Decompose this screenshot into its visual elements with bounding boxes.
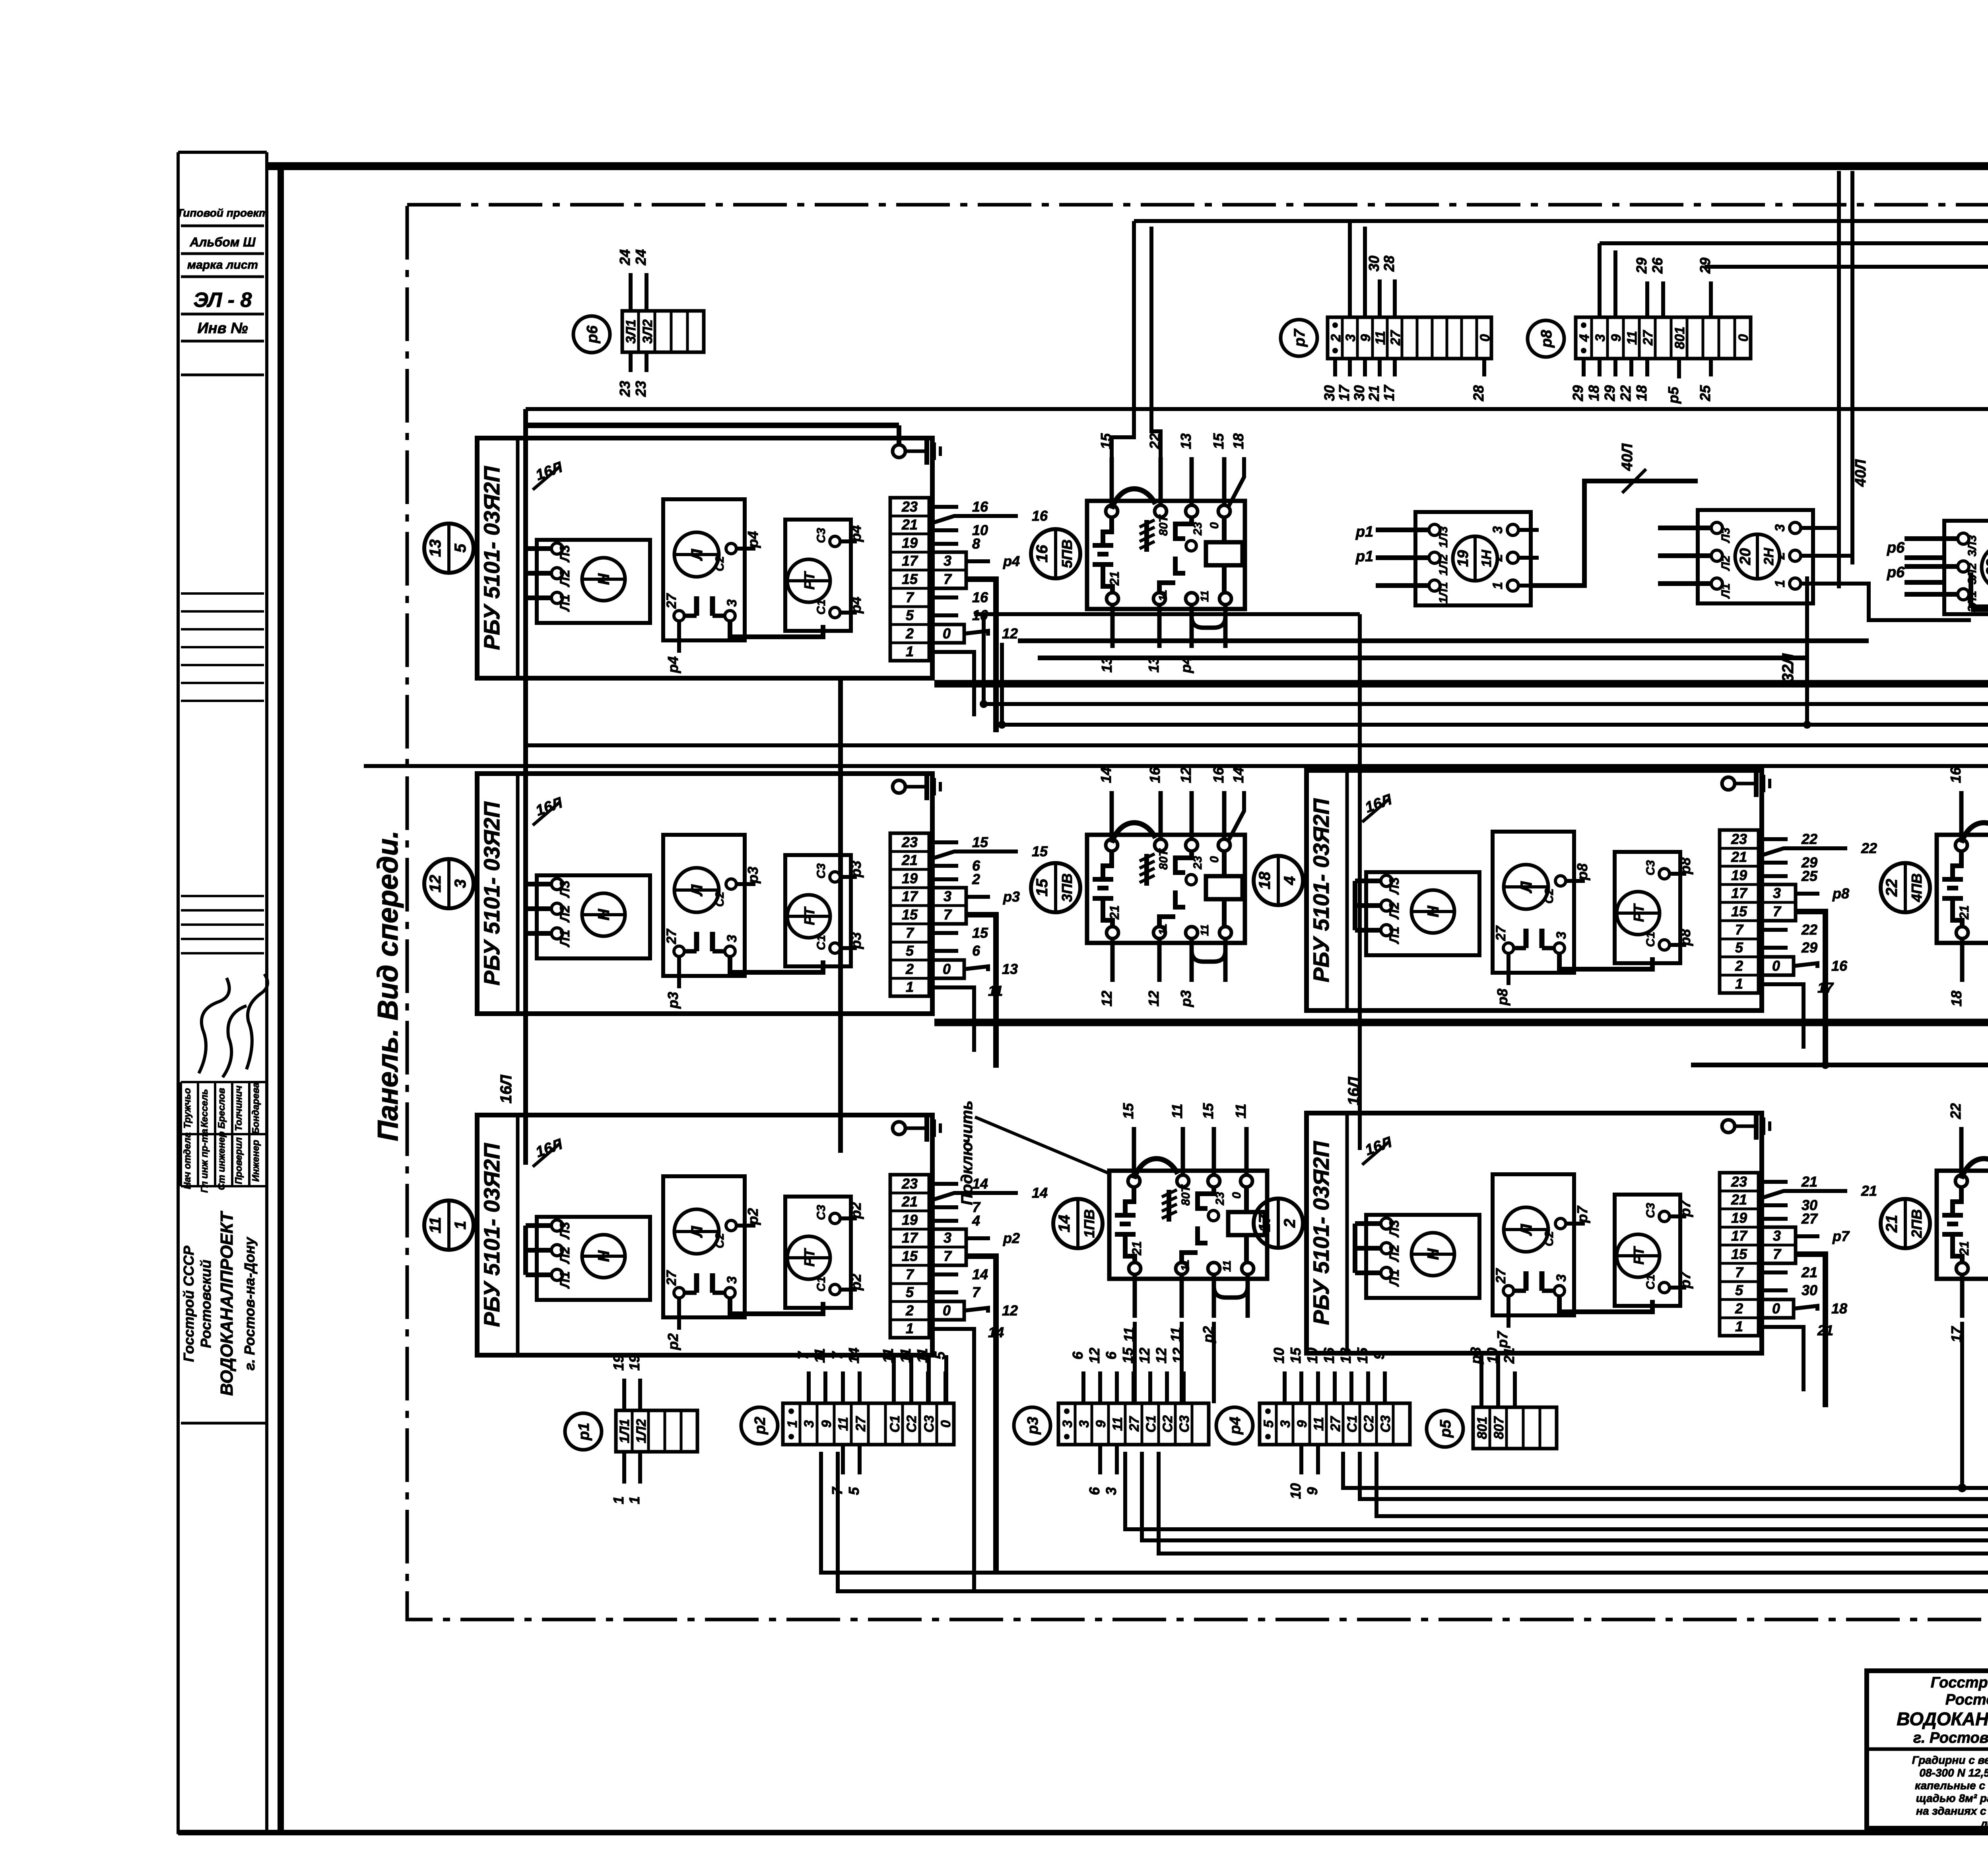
svg-text:р4: р4 [848, 525, 864, 542]
svg-text:РТ: РТ [801, 906, 817, 925]
wire to 1-3 [1125, 1452, 1988, 1529]
svg-text:р8: р8 [1677, 929, 1693, 946]
svg-text:9: 9 [1093, 1420, 1109, 1428]
relay block РТ of U2 [785, 855, 851, 966]
svg-text:1: 1 [626, 1496, 643, 1504]
svg-text:Л2: Л2 [1387, 1245, 1402, 1263]
contactor K1 [1087, 501, 1245, 609]
svg-text:11: 11 [1168, 1327, 1184, 1342]
svg-text:08-300 N 12,5 пленочные и: 08-300 N 12,5 пленочные и [1919, 1767, 1988, 1779]
wire bus 1771 [984, 702, 1988, 706]
terminal strip of U3 [890, 1175, 929, 1338]
svg-text:0: 0 [943, 1302, 951, 1319]
svg-text:С2: С2 [1543, 1231, 1556, 1247]
svg-text:17: 17 [902, 1230, 918, 1246]
wire [1960, 1322, 1964, 1488]
terminal strip р3 [1014, 1407, 1050, 1444]
svg-text:13: 13 [1338, 1348, 1354, 1364]
svg-text:5: 5 [1735, 939, 1743, 956]
svg-text:1: 1 [1735, 976, 1743, 992]
wire [1613, 250, 1617, 317]
svg-text:0: 0 [1230, 1192, 1243, 1199]
svg-text:2: 2 [1735, 958, 1743, 974]
svg-text:капельные с секциями пло-: капельные с секциями пло- [1915, 1779, 1988, 1792]
svg-text:г. Ростов-на-Дону: г. Ростов-на-Дону [241, 1236, 258, 1370]
svg-text:19: 19 [610, 1355, 627, 1371]
cabinet boundary (dash-dot) [407, 205, 1988, 1620]
svg-text:р3: р3 [665, 992, 681, 1009]
svg-text:Л1: Л1 [557, 594, 573, 612]
wire to 1-101 [1142, 1452, 1988, 1579]
wire to 2-3 [1691, 1065, 1988, 1152]
svg-text:р8: р8 [1832, 885, 1849, 902]
svg-text:13: 13 [1145, 657, 1162, 673]
svg-text:Инв №: Инв № [197, 320, 248, 337]
wire bus 3908 [1159, 1452, 1988, 1554]
ground [1722, 1113, 1770, 1140]
svg-text:15: 15 [1731, 903, 1747, 919]
wire [1358, 614, 1362, 1150]
ground [893, 773, 940, 800]
svg-text:Л: Л [688, 884, 706, 897]
svg-text:27: 27 [664, 928, 679, 945]
svg-text:2ПВ: 2ПВ [1908, 1209, 1925, 1238]
wire 32Л [1805, 576, 1809, 725]
svg-text:15: 15 [902, 906, 918, 923]
wire top bus 2 [1600, 241, 1988, 245]
svg-text:РТ: РТ [1631, 903, 1647, 922]
svg-text:27: 27 [1493, 925, 1508, 941]
wire [1133, 1322, 1137, 1403]
svg-text:2: 2 [1328, 334, 1343, 342]
wire [944, 1355, 948, 1403]
svg-text:5: 5 [846, 1487, 862, 1495]
svg-text:р2: р2 [848, 1202, 864, 1219]
wire bus 3956 [821, 1452, 1988, 1573]
svg-text:Н: Н [595, 1250, 613, 1262]
contactor K2 [1087, 835, 1245, 943]
svg-text:Панель. Вид спереди.: Панель. Вид спереди. [372, 830, 404, 1141]
wire bus 1927 [364, 764, 1988, 768]
wire [1479, 1353, 1483, 1407]
svg-text:11: 11 [1373, 331, 1388, 345]
svg-text:23: 23 [1213, 1192, 1227, 1206]
svg-text:3ПВ: 3ПВ [1059, 873, 1075, 902]
node 23/3Л [1982, 545, 1988, 590]
svg-text:р8: р8 [1574, 863, 1590, 881]
svg-text:18: 18 [1586, 385, 1602, 401]
svg-text:Л1: Л1 [1387, 927, 1402, 945]
svg-text:7: 7 [795, 1351, 811, 1360]
svg-text:21: 21 [1107, 571, 1122, 586]
lamp block Л of U2 [663, 835, 745, 976]
svg-text:30: 30 [1802, 1282, 1817, 1298]
contactor Н of U3 [537, 1217, 650, 1300]
svg-text:1Л2: 1Л2 [1437, 554, 1450, 576]
svg-text:С3: С3 [1177, 1415, 1192, 1433]
svg-text:27: 27 [664, 1270, 679, 1286]
svg-text:5ПВ: 5ПВ [1059, 539, 1075, 568]
svg-text:РБУ 5101- 03Я2П: РБУ 5101- 03Я2П [479, 801, 504, 985]
svg-text:С1: С1 [1644, 1274, 1657, 1290]
magnetic starter KT2 [1698, 510, 1813, 603]
svg-text:14: 14 [1056, 1215, 1073, 1233]
svg-text:29: 29 [1697, 258, 1713, 274]
svg-text:р3: р3 [1003, 888, 1020, 905]
wire bus 4003 [838, 1452, 1988, 1591]
node 11/1 [424, 1201, 474, 1250]
svg-text:80Т: 80Т [1179, 1184, 1192, 1205]
svg-text:1ПВ: 1ПВ [1081, 1209, 1097, 1238]
svg-text:29: 29 [1570, 385, 1586, 401]
svg-text:1Л1: 1Л1 [1437, 582, 1450, 603]
panel U3 РБУ 5101-03Я2П [477, 1115, 932, 1355]
svg-text:р4: р4 [745, 531, 761, 548]
terminal strip of U5 [1720, 1173, 1759, 1336]
svg-text:23: 23 [1731, 831, 1747, 847]
svg-text:20: 20 [1737, 548, 1754, 565]
svg-text:19: 19 [902, 870, 918, 886]
svg-text:10: 10 [1304, 1348, 1320, 1364]
svg-text:3: 3 [802, 1420, 817, 1428]
svg-text:6: 6 [1103, 1351, 1119, 1360]
wire 1070 into panel ground [526, 423, 899, 428]
svg-text:р7: р7 [1574, 1205, 1590, 1223]
svg-text:21: 21 [1801, 1264, 1817, 1280]
svg-text:29: 29 [1602, 385, 1618, 401]
svg-text:15: 15 [1120, 1347, 1136, 1364]
svg-text:С1: С1 [1644, 932, 1657, 947]
svg-text:2: 2 [1735, 1300, 1743, 1317]
svg-text:9: 9 [1609, 334, 1624, 341]
svg-text:27: 27 [1640, 330, 1656, 346]
svg-text:32Л: 32Л [1779, 653, 1797, 682]
svg-text:21: 21 [1501, 1348, 1517, 1364]
svg-text:17: 17 [1948, 1326, 1965, 1342]
svg-text:С1: С1 [815, 935, 828, 950]
wire [1348, 221, 1352, 317]
terminal strip р5 [1427, 1410, 1463, 1447]
svg-text:22: 22 [1801, 831, 1817, 847]
contactor Н of U5 [1366, 1215, 1479, 1298]
svg-text:5: 5 [1261, 1420, 1276, 1428]
svg-text:15: 15 [1354, 1347, 1371, 1364]
panel U5 РБУ 5101-03Я2П [1307, 1113, 1762, 1353]
svg-text:40Л: 40Л [1619, 443, 1636, 471]
svg-text:801: 801 [1475, 1417, 1490, 1439]
svg-text:Гл инж пр-та: Гл инж пр-та [199, 1129, 210, 1193]
contactor K3 [1109, 1171, 1267, 1279]
svg-text:29: 29 [1633, 258, 1650, 274]
svg-text:Инженер: Инженер [250, 1140, 261, 1181]
svg-text:Л3: Л3 [557, 545, 573, 563]
svg-text:РБУ 5101- 03Я2П: РБУ 5101- 03Я2П [1309, 1140, 1334, 1325]
svg-text:11: 11 [1311, 1417, 1326, 1431]
svg-text:3: 3 [1343, 334, 1358, 341]
svg-text:13: 13 [427, 539, 444, 557]
svg-text:27: 27 [1388, 330, 1403, 346]
svg-text:р2: р2 [665, 1333, 681, 1350]
svg-text:6: 6 [1086, 1487, 1103, 1495]
svg-text:р4: р4 [1178, 656, 1194, 673]
svg-text:4ПВ: 4ПВ [1908, 873, 1925, 902]
svg-text:7: 7 [1773, 903, 1782, 919]
svg-text:р3: р3 [745, 867, 761, 884]
svg-text:г. Ростов - на - Дону: г. Ростов - на - Дону [1913, 1730, 1988, 1746]
svg-text:Л1: Л1 [1719, 583, 1732, 599]
svg-text:3: 3 [1490, 526, 1505, 533]
wire to 5-101 [1343, 1324, 1988, 1488]
wire [1038, 656, 1807, 660]
svg-text:Л2: Л2 [1719, 555, 1732, 571]
svg-text:26: 26 [1649, 257, 1666, 274]
svg-text:11: 11 [1198, 924, 1211, 936]
svg-text:17: 17 [902, 553, 918, 569]
svg-text:РБУ 5101- 03Я2П: РБУ 5101- 03Я2П [479, 1142, 504, 1327]
svg-text:р2: р2 [1003, 1230, 1020, 1246]
svg-text:11: 11 [1157, 923, 1169, 935]
svg-text:24: 24 [633, 249, 649, 266]
terminal strip of U4 [1720, 830, 1759, 993]
svg-text:р2: р2 [848, 1274, 864, 1291]
terminal strip р6 [573, 316, 610, 353]
svg-text:р2: р2 [745, 1208, 761, 1225]
svg-text:15: 15 [972, 834, 988, 850]
svg-text:15: 15 [972, 925, 988, 941]
node 17/2 [1254, 1199, 1303, 1248]
svg-text:7: 7 [944, 906, 952, 923]
svg-text:9: 9 [1358, 334, 1373, 341]
svg-text:27: 27 [853, 1416, 868, 1432]
svg-text:16Л: 16Л [497, 1075, 515, 1104]
svg-text:7: 7 [944, 1248, 952, 1264]
svg-text:р1: р1 [1355, 524, 1373, 540]
svg-text:РБУ 5101- 03Я2П: РБУ 5101- 03Я2П [1309, 798, 1334, 982]
svg-text:Л1: Л1 [1387, 1269, 1402, 1287]
svg-text:30: 30 [1321, 385, 1338, 401]
svg-text:на зданиях с плоской кров-: на зданиях с плоской кров- [1916, 1805, 1988, 1817]
svg-text:11: 11 [812, 1348, 828, 1363]
svg-text:25: 25 [1697, 385, 1713, 401]
svg-text:18: 18 [1831, 1300, 1847, 1317]
svg-text:р4: р4 [1227, 1417, 1244, 1435]
svg-text:3Л1: 3Л1 [623, 319, 639, 343]
svg-text:15: 15 [1098, 433, 1114, 449]
svg-text:1: 1 [1490, 582, 1505, 590]
wire [1363, 227, 1367, 317]
wire [972, 1391, 976, 1591]
svg-text:3: 3 [1077, 1420, 1092, 1428]
svg-text:Типовой проект: Типовой проект [177, 207, 269, 219]
svg-text:11: 11 [880, 1348, 896, 1363]
svg-text:3: 3 [1773, 1228, 1781, 1244]
svg-text:16: 16 [1033, 545, 1051, 562]
svg-text:15: 15 [902, 571, 918, 587]
svg-text:1: 1 [906, 643, 914, 659]
svg-text:21: 21 [901, 516, 918, 533]
svg-text:р8: р8 [1677, 857, 1693, 875]
svg-text:Ст инженер: Ст инженер [216, 1131, 227, 1190]
svg-text:0: 0 [1772, 1300, 1780, 1317]
svg-text:р5: р5 [1665, 386, 1681, 404]
leader line [975, 1117, 1109, 1173]
svg-text:12: 12 [1002, 625, 1018, 642]
svg-text:р5: р5 [1437, 1420, 1454, 1438]
svg-text:Л: Л [688, 549, 706, 561]
svg-text:24: 24 [617, 249, 633, 266]
svg-text:р4: р4 [848, 597, 864, 614]
wire [1496, 1353, 1500, 1407]
svg-text:22: 22 [1147, 433, 1163, 450]
svg-text:16: 16 [1947, 767, 1964, 783]
svg-text:21: 21 [1107, 905, 1122, 920]
node 12/3 [424, 859, 474, 908]
svg-text:18: 18 [1256, 871, 1274, 889]
svg-text:3: 3 [1773, 885, 1781, 901]
wire [1905, 580, 1944, 585]
svg-text:23: 23 [1731, 1173, 1747, 1190]
svg-text:5: 5 [1735, 1282, 1743, 1298]
svg-text:28: 28 [1381, 256, 1397, 272]
wire [892, 1355, 896, 1403]
svg-text:Ростовский: Ростовский [1945, 1691, 1988, 1708]
svg-text:17: 17 [1336, 384, 1352, 401]
svg-text:3Л2: 3Л2 [640, 319, 655, 343]
svg-text:Бондарева: Бондарева [250, 1082, 261, 1134]
wire Ввод1 feed [934, 680, 1988, 688]
svg-text:Л: Л [688, 1226, 706, 1238]
svg-text:1: 1 [1773, 580, 1788, 588]
svg-text:Градирни с вентиляторами: Градирни с вентиляторами [1912, 1754, 1988, 1766]
svg-text:0: 0 [1477, 334, 1493, 341]
svg-text:3: 3 [944, 1230, 951, 1246]
svg-text:5: 5 [906, 943, 914, 959]
svg-text:Л3: Л3 [557, 1222, 573, 1240]
svg-text:15: 15 [1210, 433, 1227, 449]
svg-text:11: 11 [836, 1417, 851, 1431]
ground [893, 1115, 940, 1142]
svg-text:р3: р3 [848, 861, 864, 878]
wire to 3-3 [1360, 1384, 1988, 1499]
svg-text:27: 27 [1127, 1416, 1142, 1432]
svg-text:3: 3 [1060, 1420, 1075, 1428]
svg-text:Л3: Л3 [1387, 1220, 1402, 1238]
svg-text:р7: р7 [1494, 1331, 1510, 1348]
svg-text:0: 0 [1208, 522, 1221, 529]
svg-text:2: 2 [972, 871, 980, 887]
svg-text:11: 11 [1110, 1417, 1125, 1431]
wire [1212, 1322, 1216, 1403]
svg-text:12: 12 [1178, 767, 1194, 783]
svg-text:1Н: 1Н [1479, 549, 1494, 567]
node 21/2ПВ [1881, 1199, 1930, 1248]
svg-text:С3: С3 [1378, 1415, 1393, 1433]
svg-text:С3: С3 [815, 528, 828, 543]
svg-text:807: 807 [1491, 1416, 1507, 1439]
svg-text:р7: р7 [1677, 1199, 1693, 1217]
svg-text:23: 23 [617, 381, 633, 397]
terminal strip р4 [1216, 1407, 1253, 1444]
svg-text:Н: Н [1425, 905, 1442, 917]
node 14/1ПВ [1053, 1199, 1103, 1248]
svg-text:р2: р2 [1200, 1326, 1216, 1343]
svg-text:23: 23 [1191, 856, 1204, 870]
svg-text:Толчинич: Толчинич [233, 1086, 244, 1131]
wire to 3-101 [1376, 1447, 1988, 1516]
lamp block Л of U3 [663, 1176, 745, 1317]
ground [1722, 770, 1770, 797]
svg-text:12: 12 [1145, 991, 1162, 1007]
svg-text:21: 21 [1366, 385, 1382, 401]
svg-text:Кессель: Кессель [199, 1089, 210, 1128]
svg-text:Нач отдела: Нач отдела [182, 1133, 193, 1189]
svg-text:0: 0 [1736, 334, 1751, 341]
svg-text:Альбом Ш: Альбом Ш [189, 235, 256, 249]
relay block РТ of U3 [785, 1197, 851, 1308]
svg-text:6: 6 [972, 943, 980, 959]
svg-text:С2: С2 [1160, 1415, 1175, 1433]
svg-text:Л3: Л3 [557, 881, 573, 898]
svg-text:9: 9 [1371, 1352, 1387, 1360]
svg-text:14: 14 [846, 1348, 862, 1364]
ground [893, 438, 940, 465]
svg-text:р2: р2 [752, 1417, 769, 1435]
wire 1029 [526, 407, 1988, 411]
wire [1850, 171, 1854, 564]
wire [982, 613, 986, 704]
svg-text:801: 801 [1672, 327, 1687, 349]
svg-text:Л1: Л1 [557, 1271, 573, 1289]
svg-text:С3: С3 [1644, 1203, 1657, 1218]
svg-text:14: 14 [1098, 767, 1114, 783]
label 16Л [533, 1143, 561, 1167]
svg-text:11: 11 [1625, 331, 1640, 345]
svg-text:22: 22 [1883, 879, 1901, 897]
svg-text:13: 13 [1002, 961, 1018, 977]
svg-text:1: 1 [906, 979, 914, 995]
svg-text:22: 22 [1947, 1103, 1964, 1119]
svg-text:15: 15 [1033, 879, 1051, 896]
svg-text:РБУ 5101- 03Я2П: РБУ 5101- 03Я2П [479, 465, 504, 650]
svg-text:2: 2 [905, 961, 914, 977]
svg-text:23: 23 [633, 381, 649, 397]
label 16Л [533, 801, 561, 825]
svg-text:7: 7 [906, 1266, 914, 1282]
svg-text:16: 16 [1032, 508, 1048, 524]
node 20/2Н [1735, 534, 1780, 579]
svg-text:Л3: Л3 [1387, 877, 1402, 895]
svg-text:27: 27 [1801, 1210, 1818, 1227]
svg-text:11: 11 [897, 1348, 914, 1363]
svg-text:1: 1 [785, 1420, 800, 1428]
svg-text:16: 16 [1831, 958, 1848, 974]
svg-text:11: 11 [1198, 590, 1211, 602]
wire [1821, 584, 1971, 620]
svg-text:16: 16 [1210, 767, 1227, 783]
wire bus 1875 [526, 743, 1988, 747]
svg-text:10: 10 [1287, 1483, 1304, 1499]
svg-text:16: 16 [1147, 767, 1163, 783]
svg-text:3: 3 [724, 935, 740, 942]
svg-text:4: 4 [972, 1212, 980, 1229]
svg-text:Н: Н [595, 573, 613, 585]
svg-text:С2: С2 [713, 556, 726, 572]
svg-text:15: 15 [1287, 1347, 1304, 1364]
wire [1598, 243, 1602, 317]
svg-text:С1: С1 [1345, 1415, 1360, 1432]
svg-text:13: 13 [1178, 433, 1194, 449]
svg-text:11: 11 [1169, 1104, 1185, 1118]
